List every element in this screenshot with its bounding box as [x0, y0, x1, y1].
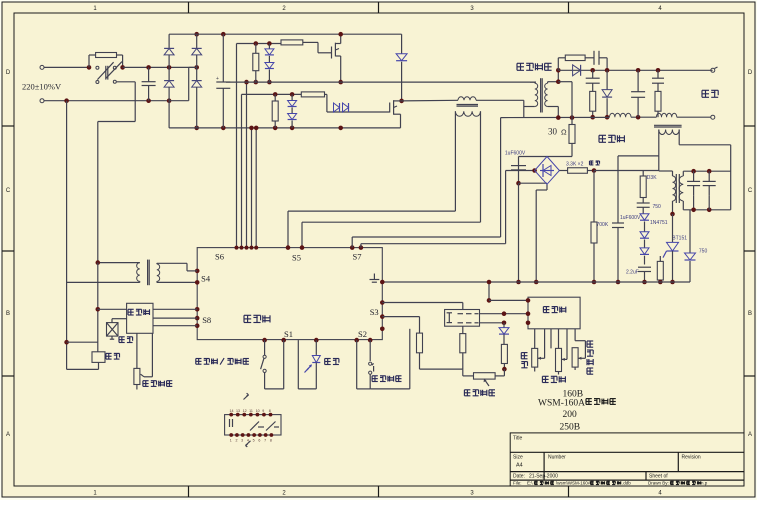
main transformer T1 primary [530, 81, 535, 83]
resistor 700K [593, 171, 595, 223]
output label [702, 89, 709, 91]
switch S1 tig/mma [196, 358, 202, 360]
torch switch label [372, 375, 378, 377]
T2 right top lead to cap rail [682, 171, 684, 176]
snubber loop R and C [557, 58, 559, 71]
ground symbol on board [373, 274, 375, 280]
svg-text:D: D [6, 70, 11, 76]
resistor beside BT151 [659, 256, 661, 261]
bridge cap plates [511, 165, 526, 167]
wire S7a [351, 237, 353, 248]
current pot [462, 369, 464, 376]
svg-text:8: 8 [270, 439, 272, 443]
svg-text:Drawn By:: Drawn By: [648, 481, 669, 486]
S6 pin dots [235, 246, 239, 250]
fan label [106, 352, 112, 354]
mid rail [226, 81, 536, 83]
bridge diode column 1 [167, 65, 172, 70]
output terminal plus [711, 68, 715, 72]
svg-text:250B: 250B [560, 423, 581, 433]
resistor R gate upper [281, 40, 303, 45]
T2 left top lead [672, 171, 674, 176]
relay pole 2 [96, 81, 99, 84]
svg-text:Date:: Date: [513, 474, 525, 480]
svg-text:2.2uF: 2.2uF [626, 270, 639, 276]
arc coupling transformer primary [458, 97, 476, 101]
T1 secondary top lead [547, 82, 549, 84]
power LED [315, 340, 317, 355]
bridge rectifier diamond [535, 157, 560, 185]
relay coil mark [229, 419, 231, 427]
svg-text:S4: S4 [201, 274, 211, 284]
svg-text:B: B [6, 311, 10, 317]
resistor 3.3K [559, 170, 567, 172]
trimmer 1 [532, 348, 538, 367]
wire down to rail from Q2 node [523, 100, 525, 117]
output capacitor C out1 [636, 68, 641, 73]
bulk electrolytic capacitor [221, 32, 226, 37]
svg-text:D: D [748, 70, 753, 76]
current sense box [445, 310, 480, 327]
mosfet Q2 [393, 100, 395, 115]
main control board label [244, 314, 251, 316]
svg-text:C: C [6, 188, 11, 194]
pulse board label [543, 306, 549, 308]
spare relay block [225, 415, 281, 435]
pin S4 [195, 269, 200, 274]
output terminal minus [711, 115, 715, 119]
gate pulldown resistor upper [254, 41, 259, 46]
T3 core [147, 260, 149, 286]
vertical from relay to fan [97, 263, 99, 352]
relay arrows [244, 395, 249, 400]
upper gate line [237, 43, 282, 45]
svg-text:B: B [748, 311, 752, 317]
svg-text:1: 1 [230, 439, 232, 443]
relay pole 1 [96, 66, 99, 69]
rail to D3K [594, 170, 659, 172]
title block [510, 433, 744, 486]
svg-text:14: 14 [230, 409, 234, 413]
arc transformer A core [654, 124, 682, 126]
svg-text:S6: S6 [215, 252, 224, 262]
svg-text:A4: A4 [516, 463, 523, 469]
wire row1 to bridge [123, 66, 197, 68]
svg-text:\wsm\WSM-160A: \wsm\WSM-160A [556, 481, 591, 486]
gas valve symbol [107, 323, 119, 337]
arc A secondary left leg [658, 130, 660, 156]
wire S7b jog [360, 244, 362, 248]
svg-text:1uF600V: 1uF600V [620, 215, 641, 221]
bridge cap neg to ground rail [518, 183, 520, 282]
svg-text:S7: S7 [353, 252, 362, 262]
svg-text:Ω: Ω [561, 128, 567, 137]
arc coupling transformer secondary [455, 111, 480, 116]
cap rail bottom [683, 209, 730, 211]
HF cap 2 [708, 171, 710, 181]
svg-text:A: A [748, 432, 752, 438]
arc A secondary right leg [678, 130, 680, 145]
damper resistor col [590, 91, 596, 111]
fan loop wires [67, 341, 98, 343]
HV capacitor 617 [612, 222, 624, 224]
lower gate line [242, 93, 302, 95]
HF transformer T2 [673, 176, 676, 201]
gate zener pair upper [267, 41, 272, 46]
pin S8 [195, 307, 200, 312]
trimmer 1 label vertical [521, 352, 527, 354]
svg-text:BT151: BT151 [672, 236, 687, 242]
wire S5a to coupling secondary left [454, 111, 456, 211]
arc transformer A secondary [659, 130, 679, 135]
trimmer 2 [556, 348, 562, 371]
delay gas-off label [143, 380, 149, 382]
input terminal L [40, 65, 44, 69]
arc transformer A primary on rail [656, 113, 676, 117]
svg-text:+: + [216, 76, 219, 82]
svg-text:11: 11 [249, 409, 253, 413]
svg-text:1uF600V: 1uF600V [505, 151, 526, 157]
svg-text:7: 7 [264, 439, 266, 443]
svg-text:Title: Title [513, 436, 522, 442]
fan [92, 352, 105, 363]
gate pulldown resistor lower [273, 92, 278, 97]
wire S7b down to bridge [505, 171, 507, 244]
svg-text:S8: S8 [202, 315, 211, 325]
sense box out wires [480, 313, 529, 315]
svg-text:n.p: n.p [701, 481, 708, 486]
svg-text:Size: Size [513, 455, 523, 461]
svg-text:21-Sep-2000: 21-Sep-2000 [529, 474, 558, 480]
wire S3 into sense box [382, 302, 463, 304]
gas valve board outputs to S8 [153, 308, 197, 310]
frame column ticks [188, 2, 190, 13]
svg-text:3: 3 [241, 439, 243, 443]
svg-text:750: 750 [699, 249, 708, 255]
input terminal N [40, 99, 44, 103]
svg-text:S5: S5 [292, 253, 301, 263]
pulse board left pin dots [526, 298, 531, 303]
svg-text:10: 10 [256, 409, 260, 413]
T1 core [540, 78, 542, 112]
aux transformer T3 primary [98, 262, 140, 264]
svg-text:13: 13 [236, 409, 240, 413]
output filter inductor [610, 113, 632, 117]
board bottom pin dots [262, 338, 267, 343]
pulse board bottom pins [534, 329, 536, 349]
T1 secondary top junction [556, 79, 561, 84]
svg-text:Revision: Revision [682, 455, 701, 461]
svg-text:6: 6 [258, 439, 260, 443]
diode to pot chain [503, 323, 505, 328]
bridge diode column 2 [194, 65, 199, 70]
resistor left chain [382, 316, 419, 318]
bridge bottom vertex to ground rail [546, 184, 548, 190]
wire valve board feed [97, 308, 126, 310]
current adjust label [464, 389, 470, 391]
relay heater resistor [96, 53, 117, 58]
svg-text:750: 750 [653, 204, 662, 210]
svg-text:WSM-160A: WSM-160A [538, 399, 585, 409]
svg-text:S1: S1 [284, 329, 293, 339]
wire gnd jog to pulse board [488, 282, 490, 300]
resistor above pot right [501, 344, 507, 363]
delay gas-off resistor [136, 333, 138, 368]
dc bottom rail [169, 127, 400, 129]
delay trimmer wiper [151, 333, 153, 377]
svg-text:12: 12 [243, 409, 247, 413]
svg-text:3.3K ×2: 3.3K ×2 [566, 162, 584, 168]
svg-text:8: 8 [269, 409, 271, 413]
switch S2 torch [356, 340, 358, 389]
relay bottom pins [229, 433, 233, 437]
freewheel diode upper [401, 34, 403, 54]
wire Q2 drain to transformer [402, 99, 458, 102]
svg-text:C: C [748, 188, 753, 194]
HF cap 1 [693, 171, 695, 181]
svg-text:E:\: E:\ [527, 481, 533, 486]
gas valve board [127, 303, 153, 333]
bridge capacitor [518, 166, 520, 171]
bridge jog wire [189, 66, 197, 68]
svg-text:D3K: D3K [647, 175, 657, 181]
base current label vertical [587, 340, 593, 342]
duty cycle label [542, 375, 548, 377]
resistor D3K [642, 171, 644, 177]
T3 secondary [157, 264, 160, 281]
damper capacitor col [592, 70, 594, 78]
bridge top vertex wire [519, 156, 573, 158]
resistor R gate lower [301, 92, 324, 97]
mosfet Q1 [334, 43, 336, 57]
damper diode col [606, 70, 608, 89]
gate zener pair inline [334, 103, 340, 112]
frame row ticks [2, 125, 14, 127]
wire input N [67, 100, 170, 102]
svg-text:700K: 700K [597, 222, 609, 228]
power label [325, 358, 331, 360]
ground rail right circuit [382, 281, 690, 283]
main control board outline [197, 248, 382, 340]
svg-text:Number: Number [548, 455, 566, 461]
output diode [573, 65, 581, 76]
relay top pins [229, 413, 233, 417]
wire relay pole2 to aux circuit [117, 81, 136, 83]
svg-text:9: 9 [262, 409, 264, 413]
arc board label [599, 134, 606, 136]
svg-text:200: 200 [563, 410, 578, 420]
torch switch stub [409, 329, 411, 389]
relay contacts [250, 422, 259, 431]
wire S5b to coupling secondary right [480, 111, 482, 222]
svg-text:A: A [6, 432, 10, 438]
filter capacitor C1 [146, 65, 151, 70]
pot wiper arrow [484, 379, 489, 386]
svg-text:1N4751: 1N4751 [650, 220, 668, 226]
output bottom rail [501, 116, 610, 118]
gate wire bundle to S6 [236, 44, 238, 248]
dc top rail [169, 33, 402, 35]
gnd pin wire [380, 280, 385, 285]
T1 secondary bottom lead [548, 106, 559, 108]
main transformer label [517, 62, 524, 64]
svg-text:S3: S3 [370, 307, 379, 317]
pulse board outline [528, 297, 580, 329]
gate zener pair lower [290, 92, 295, 97]
svg-text:S2: S2 [358, 329, 367, 339]
output RC leg [656, 68, 661, 73]
svg-text:30: 30 [548, 127, 558, 137]
relay K1 contacts [87, 65, 92, 70]
svg-text:220±10%V: 220±10%V [22, 82, 62, 92]
T2 bottom leads [672, 201, 674, 214]
left long vertical from input N [64, 98, 69, 103]
resistor mid chain [462, 326, 464, 333]
gas valve label [119, 336, 125, 338]
output top rail [558, 69, 712, 71]
trimmer 3 [572, 348, 578, 367]
svg-text:File:: File: [513, 481, 522, 486]
cap 750 [637, 202, 650, 204]
resistor 30ohm [570, 115, 575, 120]
svg-text:Sheet of: Sheet of [649, 474, 668, 480]
svg-text:.ddb: .ddb [622, 481, 631, 486]
svg-text:5: 5 [253, 439, 255, 443]
T1 secondary [545, 83, 548, 106]
svg-text:2: 2 [235, 439, 237, 443]
